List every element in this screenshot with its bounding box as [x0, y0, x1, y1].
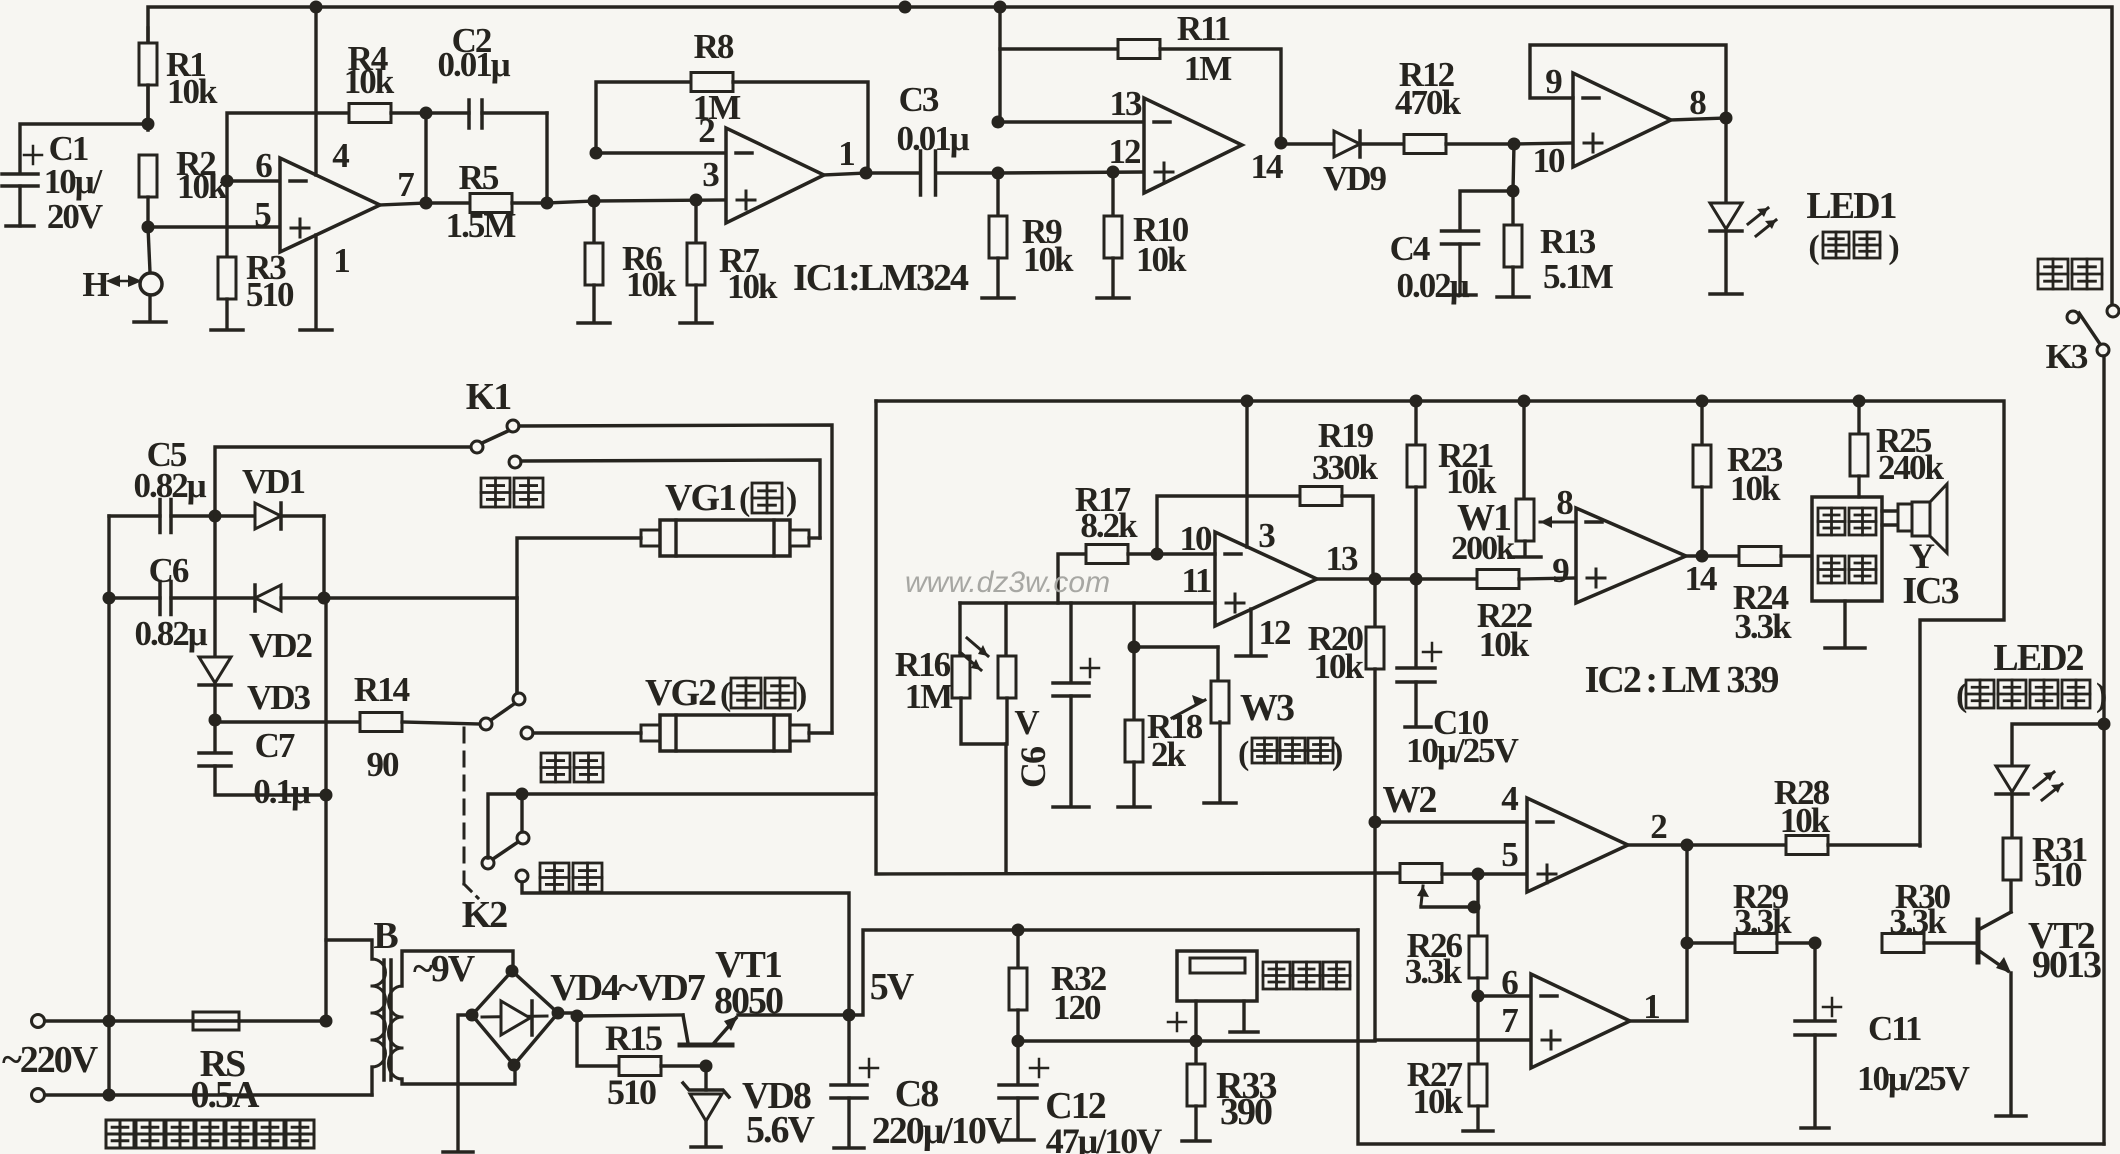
- terminal AC top: [32, 1015, 45, 1028]
- node rail n3: [1518, 395, 1531, 408]
- label alarm 报警: [541, 753, 570, 782]
- node R10 junction: [1107, 166, 1120, 179]
- node R32-C12: [1012, 1035, 1025, 1048]
- resistor R1: [146, 28, 149, 43]
- svg-text:10: 10: [1180, 519, 1213, 558]
- transformer core: [382, 960, 386, 1080]
- potentiometer W2: [1400, 864, 1442, 883]
- resistor R26: [1469, 936, 1487, 978]
- svg-text:14: 14: [1685, 559, 1718, 598]
- svg-text:B: B: [373, 915, 398, 957]
- node op IC2B out: [1369, 573, 1382, 586]
- calculator box: [1177, 951, 1257, 1001]
- capacitor C12: [1016, 1041, 1019, 1083]
- node pin10: [1151, 548, 1164, 561]
- svg-text:IC2 : LM 339: IC2 : LM 339: [1585, 659, 1779, 701]
- svg-text:10k: 10k: [1479, 625, 1530, 664]
- wire pin3: [594, 200, 726, 201]
- svg-text:90: 90: [367, 745, 400, 784]
- node R6 junction: [588, 195, 601, 208]
- node R5-C2 right: [541, 197, 554, 210]
- wire AC top: [45, 1019, 193, 1022]
- wire 5V riser: [849, 930, 1358, 1015]
- svg-text:1: 1: [333, 241, 349, 280]
- resistor R17: [1058, 554, 1086, 603]
- svg-text:VG1: VG1: [665, 477, 736, 519]
- wire pin7: [1375, 1038, 1531, 1041]
- wire left dropper rail: [107, 516, 110, 1095]
- svg-text:1M: 1M: [1184, 49, 1233, 88]
- svg-text:8: 8: [1556, 483, 1573, 522]
- resistor R15: [577, 1016, 619, 1066]
- capacitor C1: [20, 124, 148, 172]
- node R12 out: [1508, 138, 1521, 151]
- wire pin10: [1157, 552, 1215, 555]
- svg-text:W2: W2: [1383, 779, 1437, 821]
- magnetic head H sensor: [148, 227, 150, 272]
- wire K3 to bottom rail: [2102, 356, 2105, 1144]
- resistor R6: [592, 201, 595, 243]
- svg-text:9: 9: [1545, 62, 1562, 101]
- ground pin1: [314, 235, 317, 328]
- svg-text:10k: 10k: [1136, 240, 1187, 279]
- resistor R22: [1477, 570, 1519, 589]
- resistor R19: [1157, 496, 1300, 554]
- svg-text:11: 11: [1181, 561, 1211, 600]
- svg-text:10k: 10k: [1023, 240, 1074, 279]
- wire bottom 5V rail: [1358, 930, 2104, 1144]
- svg-text:240k: 240k: [1878, 448, 1945, 487]
- resistor R5: [426, 201, 470, 204]
- wire pin4 power: [314, 7, 317, 175]
- op-amp U2D IC2: [1531, 974, 1630, 1068]
- svg-text:8.2k: 8.2k: [1080, 506, 1138, 545]
- ground IC3: [1843, 601, 1846, 646]
- svg-text:10k: 10k: [344, 62, 395, 101]
- node C11 junction: [1809, 937, 1822, 950]
- label calculator 计算器: [1263, 962, 1290, 989]
- svg-text:3: 3: [1258, 516, 1275, 555]
- node rail n1: [1241, 395, 1254, 408]
- node R9 junction: [992, 167, 1005, 180]
- resistor R28: [1687, 843, 1786, 846]
- svg-text:3.3k: 3.3k: [1405, 952, 1463, 991]
- node VT1 base: [700, 1060, 713, 1073]
- wire out1: [1630, 845, 1687, 1021]
- svg-text:2: 2: [698, 111, 714, 150]
- resistor R10: [1111, 172, 1114, 216]
- fuse RS: [193, 1012, 239, 1030]
- wire pin6: [227, 179, 280, 182]
- svg-text:10μ/25V: 10μ/25V: [1406, 731, 1519, 770]
- node top rail junction B: [899, 1, 912, 14]
- op-amp U2C IC2: [1527, 798, 1628, 892]
- svg-text:LED2: LED2: [1993, 637, 2083, 679]
- wire bridge positive: [558, 1011, 577, 1014]
- svg-text:13: 13: [1110, 84, 1143, 123]
- resistor R33: [1194, 1041, 1197, 1064]
- node rail n4: [1696, 395, 1709, 408]
- svg-text:5: 5: [254, 195, 271, 234]
- svg-text:R14: R14: [354, 670, 410, 709]
- op-amp U1C IC1: [1144, 98, 1242, 193]
- wire pin13 to rail: [998, 7, 1001, 122]
- svg-text:5: 5: [1501, 835, 1518, 874]
- capacitor C7: [213, 720, 216, 751]
- svg-text:10k: 10k: [1780, 801, 1831, 840]
- svg-text:120: 120: [1053, 988, 1101, 1027]
- W2 wiper: [1421, 886, 1423, 905]
- resistor R3: [221, 175, 234, 188]
- svg-text:~220V: ~220V: [2, 1039, 99, 1081]
- node out2: [1681, 839, 1694, 852]
- svg-text:5.1M: 5.1M: [1543, 257, 1614, 296]
- node top rail junction C: [994, 1, 1007, 14]
- resistor R16 photoresistor: [958, 603, 961, 656]
- transformer B secondary: [402, 951, 513, 986]
- node R7 junction: [690, 194, 703, 207]
- svg-text:): ): [2096, 677, 2106, 714]
- diode VD2: [255, 585, 281, 611]
- speaker Y: [1882, 509, 1898, 512]
- svg-text:3.3k: 3.3k: [1734, 902, 1792, 941]
- wire C7 return riser: [324, 598, 327, 1021]
- lamp VG2 ultraviolet: [641, 725, 660, 741]
- svg-text:C11: C11: [1868, 1009, 1921, 1048]
- svg-text:47μ/10V: 47μ/10V: [1046, 1121, 1162, 1154]
- wire top supply rail: [148, 7, 2112, 305]
- wire AC bottom: [45, 1093, 372, 1096]
- svg-text:470k: 470k: [1395, 83, 1462, 122]
- node C7 return: [320, 789, 333, 802]
- node pin2 feedback: [590, 147, 603, 160]
- svg-text:K1: K1: [466, 376, 512, 418]
- wire R12 node drop: [1513, 144, 1514, 191]
- label caption 语音报警验钞机: [106, 1120, 134, 1148]
- svg-text:10: 10: [1533, 141, 1566, 180]
- svg-text:H: H: [82, 265, 109, 304]
- svg-text:1M: 1M: [905, 677, 954, 716]
- node R32 top: [1012, 924, 1025, 937]
- wire op4 out: [1671, 118, 1726, 120]
- node R4-C2: [420, 107, 433, 120]
- svg-text:~9V: ~9V: [413, 948, 476, 990]
- resistor R12: [1404, 135, 1446, 154]
- node R15 tap: [571, 1010, 584, 1023]
- capacitor C10 electrolytic: [1414, 579, 1417, 666]
- node primary junction: [320, 1015, 333, 1028]
- svg-text:0.01μ: 0.01μ: [437, 45, 510, 84]
- svg-text:0.02μ: 0.02μ: [1396, 266, 1469, 305]
- resistor R11: [1000, 47, 1118, 50]
- resistor R31: [2010, 792, 2013, 839]
- node op4 out: [1720, 112, 1733, 125]
- svg-text:IC3: IC3: [1902, 570, 1958, 612]
- svg-text:510: 510: [607, 1072, 656, 1112]
- resistor R27: [1476, 996, 1479, 1064]
- wire K1 white lamp: [519, 425, 832, 733]
- svg-text:VG2: VG2: [645, 672, 716, 714]
- svg-text:R15: R15: [605, 1018, 662, 1058]
- wire op1 output: [380, 203, 426, 205]
- wire pin11 net: [960, 601, 1215, 604]
- svg-text:200k: 200k: [1451, 530, 1515, 567]
- wire pin5: [1478, 872, 1527, 875]
- node op1 out: [420, 197, 433, 210]
- wire pin5: [148, 225, 280, 228]
- svg-text:220μ/10V: 220μ/10V: [872, 1110, 1013, 1152]
- potentiometer W1: [1522, 401, 1525, 500]
- node op2 out: [860, 167, 873, 180]
- op-amp U2A IC2: [1576, 508, 1686, 603]
- capacitor C8: [847, 1015, 850, 1083]
- LED LED1: [1724, 118, 1727, 203]
- svg-text:K2: K2: [462, 894, 508, 936]
- svg-text:20V: 20V: [47, 197, 103, 236]
- node AC bottom rail: [103, 1089, 116, 1102]
- svg-text:0.82μ: 0.82μ: [133, 466, 206, 505]
- svg-text:4: 4: [332, 136, 349, 175]
- resistor R2: [139, 155, 157, 197]
- capacitor C11 electrolytic: [1813, 943, 1816, 1019]
- transistor VT2: [1976, 920, 1981, 962]
- wire W2 to R26: [1476, 874, 1479, 936]
- diode VD9: [1281, 142, 1334, 145]
- resistor R32: [1016, 930, 1019, 968]
- wire voice to 5V: [522, 882, 849, 1015]
- resistor R23: [1700, 401, 1703, 445]
- svg-text:C4: C4: [1390, 229, 1430, 268]
- node R29 junction: [1681, 937, 1694, 950]
- svg-text:R5: R5: [459, 158, 499, 197]
- capacitor C4: [1460, 191, 1513, 229]
- svg-text:0.1μ: 0.1μ: [253, 772, 311, 811]
- svg-text:510: 510: [246, 275, 294, 314]
- svg-text:R11: R11: [1177, 9, 1230, 48]
- op-amp U1B IC1: [726, 128, 824, 223]
- svg-text:10k: 10k: [1730, 469, 1781, 508]
- svg-text:10k: 10k: [1413, 1082, 1464, 1121]
- resistor R18: [1132, 603, 1135, 647]
- svg-text:R13: R13: [1540, 222, 1596, 261]
- node C5-VD1: [209, 510, 222, 523]
- svg-text:6: 6: [255, 146, 272, 185]
- svg-text:VD4~VD7: VD4~VD7: [550, 967, 706, 1009]
- K2 gang dashed link: [463, 728, 466, 884]
- resistor R8: [596, 82, 691, 153]
- wire pin12: [998, 172, 1144, 173]
- wire IC2A out: [1686, 554, 1702, 557]
- svg-text:6: 6: [1501, 963, 1518, 1002]
- svg-text:8: 8: [1689, 83, 1706, 122]
- voice circuit IC3 box: [1812, 497, 1882, 601]
- node R2-H-pin5: [142, 221, 155, 234]
- wire IC2B out: [1317, 577, 1375, 580]
- wire VT1 emitter 5V: [738, 1013, 849, 1016]
- wire IC2 supply rail: [876, 401, 2004, 846]
- svg-text:330k: 330k: [1312, 448, 1379, 487]
- wire VD1 to VD2 node: [322, 516, 325, 598]
- svg-text:9013: 9013: [2032, 944, 2101, 986]
- svg-text:1.5M: 1.5M: [446, 206, 517, 245]
- svg-text:1: 1: [1643, 987, 1659, 1026]
- op-amp U1A IC1: [280, 158, 380, 252]
- wire VG1 left: [517, 538, 641, 693]
- node R21 out: [1410, 573, 1423, 586]
- svg-text:C3: C3: [899, 80, 939, 119]
- svg-text:10k: 10k: [626, 265, 677, 304]
- svg-text:C7: C7: [255, 726, 295, 765]
- ground pin12: [1249, 609, 1252, 654]
- svg-text:VD3: VD3: [247, 678, 311, 717]
- wire IC2 left border: [876, 401, 1400, 874]
- svg-text:13: 13: [1326, 539, 1359, 578]
- svg-text:10k: 10k: [1314, 647, 1365, 686]
- lamp VG1 white: [641, 530, 660, 546]
- svg-text:C8: C8: [895, 1073, 938, 1115]
- svg-text:5V: 5V: [870, 966, 915, 1008]
- svg-text:VD2: VD2: [249, 626, 312, 665]
- svg-text:3.3k: 3.3k: [1889, 902, 1947, 941]
- op-amp U1D IC1: [1573, 73, 1671, 167]
- node W2 right: [1472, 868, 1485, 881]
- svg-text:14: 14: [1251, 147, 1284, 186]
- node wiper junction: [1468, 901, 1481, 914]
- resistor R24: [1702, 554, 1739, 557]
- resistor R13: [1511, 191, 1514, 225]
- resistor R4: [227, 113, 349, 181]
- wire fuse to transformer: [239, 1019, 326, 1022]
- wire pin13: [998, 120, 1144, 123]
- wire feedback drop: [424, 113, 427, 203]
- resistor R20: [1373, 579, 1376, 627]
- node pin6: [1472, 990, 1485, 1003]
- capacitor C5: [109, 514, 160, 517]
- svg-text:0.01μ: 0.01μ: [896, 119, 969, 158]
- node AC-left rail: [103, 1015, 116, 1028]
- node rail n5: [1853, 395, 1866, 408]
- switch K3: [2107, 305, 2119, 317]
- svg-text:): ): [796, 676, 806, 713]
- svg-text:10k: 10k: [1446, 462, 1497, 501]
- diode VD1: [215, 514, 255, 517]
- resistor R14: [215, 720, 360, 723]
- svg-text:10μ/25V: 10μ/25V: [1857, 1059, 1970, 1098]
- svg-text:7: 7: [1501, 1001, 1518, 1040]
- node R33 top: [1190, 1035, 1203, 1048]
- wire alarm net: [488, 794, 876, 858]
- wire pin3 power: [1245, 401, 1248, 547]
- terminal AC bottom: [32, 1089, 45, 1102]
- wire pin2: [596, 151, 726, 154]
- svg-text:IC1:LM324: IC1:LM324: [793, 257, 969, 299]
- svg-text:): ): [786, 481, 796, 518]
- op-amp U2B IC2: [1215, 532, 1317, 626]
- wire pin9 feedback: [1530, 45, 1726, 118]
- node top rail junction A: [310, 1, 323, 14]
- wire out to R22: [1375, 577, 1478, 580]
- node VD3-R14-C7: [209, 714, 222, 727]
- diode VD3: [213, 516, 216, 657]
- svg-text:12: 12: [1109, 132, 1141, 171]
- label waterprint 水印: [481, 478, 510, 507]
- resistor R29: [1687, 941, 1735, 944]
- svg-text:510: 510: [2034, 855, 2082, 894]
- svg-text:9: 9: [1552, 551, 1569, 590]
- svg-text:5.6V: 5.6V: [746, 1109, 816, 1151]
- resistor R7: [694, 200, 697, 243]
- wire stage2 input: [547, 201, 594, 203]
- ground bridge negative: [458, 1015, 472, 1150]
- resistor R21: [1414, 401, 1417, 445]
- capacitor C2: [426, 111, 469, 114]
- switch K2: [513, 693, 525, 705]
- zener diode VD8: [704, 1066, 707, 1090]
- wire pin6: [1478, 994, 1531, 997]
- node rail n2: [1410, 395, 1423, 408]
- wire K1 pole riser: [215, 447, 472, 516]
- photoresistor V: [1004, 603, 1007, 656]
- label magnetic 磁性: [2038, 259, 2068, 289]
- capacitor C3: [824, 173, 866, 175]
- node R1-R2-C1: [142, 118, 155, 131]
- svg-text:): ): [1888, 229, 1898, 266]
- svg-text:2k: 2k: [1151, 735, 1187, 774]
- svg-text:LED1: LED1: [1806, 185, 1896, 227]
- node pin13: [992, 116, 1005, 129]
- svg-text:10μ/: 10μ/: [44, 162, 104, 201]
- svg-text:4: 4: [1501, 779, 1518, 818]
- photoresistor V arrows: [967, 638, 988, 656]
- potentiometer W3: [1134, 645, 1218, 648]
- svg-text:7: 7: [397, 165, 414, 204]
- svg-text:390: 390: [1220, 1091, 1272, 1133]
- node op3 out: [1275, 137, 1288, 150]
- svg-text:K3: K3: [2046, 337, 2088, 376]
- resistor R30: [1882, 934, 1924, 953]
- wire alarm contact to VG2: [533, 731, 641, 734]
- svg-text:10k: 10k: [177, 167, 228, 206]
- svg-text:3: 3: [702, 155, 719, 194]
- svg-text:C6: C6: [1013, 747, 1053, 788]
- svg-text:1: 1: [838, 134, 854, 173]
- resistor R25: [1857, 401, 1860, 434]
- node 5V: [843, 1009, 856, 1022]
- svg-text:0.82μ: 0.82μ: [134, 614, 207, 653]
- svg-text:V: V: [1014, 703, 1039, 742]
- capacitor C6 dropper: [103, 592, 116, 605]
- svg-text:12: 12: [1259, 613, 1291, 652]
- wire VD junction to K2: [324, 596, 517, 599]
- wire out2: [1628, 843, 1687, 846]
- node K2 lower: [516, 788, 529, 801]
- bridge rectifier VD4-VD7: [472, 971, 558, 1065]
- wire K1 uv lamp: [521, 460, 820, 538]
- svg-text:VD9: VD9: [1323, 159, 1387, 198]
- svg-text:C6: C6: [149, 551, 189, 590]
- wire ref drop: [1373, 822, 1376, 1040]
- svg-text:R8: R8: [694, 27, 734, 66]
- wire pin4: [1375, 820, 1527, 823]
- svg-text:2: 2: [1650, 807, 1666, 846]
- node W2 ref: [1369, 816, 1382, 829]
- node IC2A out: [1696, 550, 1709, 563]
- transformer B primary: [326, 940, 372, 959]
- wire pin10 in: [1514, 143, 1573, 144]
- svg-text:3.3k: 3.3k: [1734, 607, 1792, 646]
- svg-text:10k: 10k: [727, 267, 778, 306]
- svg-text:www.dz3w.com: www.dz3w.com: [905, 566, 1110, 599]
